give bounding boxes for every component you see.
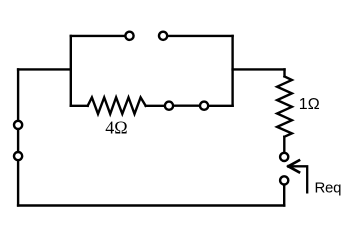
wire: left vertical upper segment bbox=[17, 69, 19, 120]
svg-text:1Ω: 1Ω bbox=[299, 96, 320, 113]
wire: bottom branch jumper between circles (closed) bbox=[174, 104, 200, 106]
terminal circle: left side lower bbox=[14, 152, 22, 160]
wire: top branch right segment (right switch circle to box top-right corner) bbox=[168, 35, 233, 37]
terminal circle: bottom branch left bbox=[165, 102, 173, 110]
wire: top branch left segment (box top-left corner to left switch circle) bbox=[71, 35, 125, 37]
wire: bottom branch right segment to box corner bbox=[209, 105, 233, 107]
wire: bottom return wire bbox=[18, 204, 284, 206]
wire: parallel-box left vertical bbox=[70, 36, 72, 106]
wire: left vertical jumper between circles (closed) bbox=[17, 130, 19, 152]
terminal circle: left side upper bbox=[14, 121, 22, 129]
wire: right lead from box to 1-ohm resistor bbox=[233, 68, 285, 70]
terminal circle: Req upper (open) bbox=[280, 153, 288, 161]
wire: short vertical into top of 1-ohm resistor bbox=[283, 69, 285, 76]
terminal circle: top branch left bbox=[125, 32, 133, 40]
label: Req bbox=[315, 179, 342, 196]
value label: 4 ohms bbox=[105, 117, 127, 137]
wire: parallel-box right vertical bbox=[231, 36, 233, 106]
terminal circle: Req lower (open) bbox=[280, 176, 288, 184]
svg-text:Req: Req bbox=[315, 179, 342, 196]
wire: bottom branch, resistor to left closed-switch circle bbox=[146, 105, 165, 107]
wire: resistor bottom to upper Req terminal bbox=[283, 137, 285, 152]
wire: lower Req terminal down to bottom wire bbox=[283, 185, 285, 205]
arrow: Req pointer (hooked arrow into terminal gap) bbox=[288, 160, 307, 192]
resistor R2 1-ohm (vertical zigzag) bbox=[277, 76, 292, 136]
wire: left vertical lower segment to bottom wire bbox=[17, 161, 19, 206]
terminal circle: top branch right bbox=[159, 32, 167, 40]
resistor R1 4-ohm (horizontal zigzag) bbox=[88, 97, 146, 114]
value label: 1 ohm bbox=[299, 96, 320, 113]
terminal circle: bottom branch right bbox=[200, 102, 208, 110]
wire: bottom branch left lead bbox=[71, 105, 88, 107]
svg-text:4Ω: 4Ω bbox=[105, 117, 127, 137]
wire: left lead from outer loop into parallel box bbox=[18, 68, 71, 70]
